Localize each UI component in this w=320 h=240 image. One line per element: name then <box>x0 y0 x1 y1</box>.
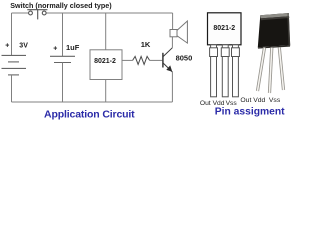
svg-text:Vdd: Vdd <box>253 97 265 104</box>
battery BT1 3V <box>2 55 27 75</box>
svg-text:+: + <box>5 43 9 50</box>
svg-text:8021-2: 8021-2 <box>94 58 116 65</box>
resistor R1 1K <box>133 56 150 64</box>
package pin 1 <box>210 45 218 97</box>
wire collector up <box>171 37 173 48</box>
svg-text:Vss: Vss <box>269 97 281 104</box>
svg-text:8021-2: 8021-2 <box>213 25 235 32</box>
switch S1 normally closed <box>27 10 47 20</box>
speaker LS1 <box>170 21 187 43</box>
package outline drawing 8021-2 <box>208 13 242 45</box>
pin labels right <box>240 97 280 104</box>
wire speaker top <box>172 13 174 30</box>
transistor Q1 8050 <box>163 48 173 72</box>
svg-text:Pin assigment: Pin assigment <box>215 106 285 117</box>
package pin 2 <box>221 45 229 97</box>
photo leg 2 <box>270 48 272 94</box>
svg-text:1uF: 1uF <box>66 43 80 52</box>
wire capacitor bottom <box>62 63 64 103</box>
svg-text:1K: 1K <box>141 40 151 49</box>
svg-text:3V: 3V <box>19 43 28 50</box>
svg-text:Switch (normally closed type): Switch (normally closed type) <box>10 1 112 10</box>
photo leg 1 <box>258 48 265 92</box>
wire IC bottom <box>105 80 107 103</box>
pin labels left <box>200 100 238 107</box>
svg-text:+: + <box>53 45 57 52</box>
wire emitter down <box>171 72 173 102</box>
IC U1 8021-2 box <box>90 50 122 80</box>
wire bottom rail <box>12 101 173 103</box>
transistor emitter arrow <box>166 65 172 71</box>
svg-text:Out: Out <box>240 97 251 104</box>
wire top rail left <box>12 12 29 14</box>
svg-text:8050: 8050 <box>176 53 193 62</box>
wire capacitor top <box>62 13 64 56</box>
wire resistor to base <box>150 59 163 61</box>
wire IC out <box>122 59 133 61</box>
svg-text:Out: Out <box>200 100 211 107</box>
svg-text:Application Circuit: Application Circuit <box>44 108 135 120</box>
package pin 3 <box>232 45 240 97</box>
photo transistor body <box>258 13 290 49</box>
wire top rail right <box>46 12 173 14</box>
wire battery bottom <box>11 75 13 102</box>
wire IC top <box>105 13 107 50</box>
photo leg 3 <box>279 48 283 91</box>
wire battery top <box>11 13 13 55</box>
capacitor C1 1uF <box>50 56 75 62</box>
